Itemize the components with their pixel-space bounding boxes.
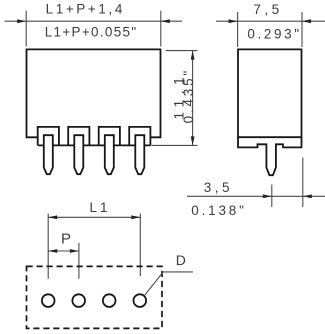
extension line hole 1 (footprint) — [47, 214, 49, 279]
extension line bottom of 11,1 dimension — [152, 144, 198, 146]
dimension line 3,5 — [187, 195, 325, 197]
svg-text:L1: L1 — [89, 200, 110, 215]
hole 2 — [72, 294, 85, 307]
arrowheads of L1 dimension — [48, 215, 140, 219]
arrowheads of 11,1 dimension — [191, 51, 195, 146]
dimension line 7,5 (side view width) — [216, 20, 325, 22]
pin collar 1 — [38, 127, 59, 145]
svg-text:0.138": 0.138" — [191, 203, 246, 218]
dimension line L1 (footprint) — [48, 216, 140, 218]
svg-text:L1+P+1,4: L1+P+1,4 — [46, 1, 125, 16]
leader line for hole diameter D — [144, 272, 193, 296]
extension line left (side view top) — [237, 12, 239, 47]
arrowheads of 3,5 dimension — [263, 194, 312, 198]
dimension line P — [48, 250, 79, 252]
connector body front view — [27, 49, 161, 137]
svg-text:0.293": 0.293" — [247, 26, 301, 41]
solder pin 1 (front view) — [44, 135, 53, 174]
PCB outline (dashed footprint box) — [27, 266, 163, 328]
svg-text:P: P — [61, 230, 71, 247]
arrowheads of 7,5 dimension — [229, 19, 311, 23]
hole 4 — [134, 294, 147, 307]
svg-text:0.435": 0.435" — [181, 68, 196, 123]
solder pin 4 (front view) — [135, 135, 144, 174]
flange line (side view) — [238, 136, 302, 138]
dimension line 11,1 (vertical) — [192, 51, 194, 146]
pin collar 2 — [68, 127, 89, 145]
svg-text:D: D — [176, 252, 186, 268]
extension line right (front view) — [160, 11, 162, 47]
extension line left (front view) — [25, 11, 27, 47]
dimension line L1+P+1,4 (front view overall width) — [5, 20, 183, 22]
svg-text:L1+P+0.055": L1+P+0.055" — [45, 24, 138, 39]
extension line hole 2 (footprint) — [78, 243, 80, 279]
extension line at pin centre (3,5 dimension) — [271, 185, 273, 208]
svg-text:7,5: 7,5 — [253, 2, 282, 17]
svg-text:3,5: 3,5 — [204, 180, 233, 195]
hole 3 — [103, 294, 116, 307]
connector body side view — [238, 49, 302, 175]
solder pin 2 (front view) — [74, 135, 83, 174]
arrowheads of L1+P+1,4 dimension — [17, 19, 170, 23]
seating plane line under collars (front view) — [38, 144, 151, 146]
pin collar 3 — [99, 127, 120, 145]
extension line hole 4 (footprint) — [139, 214, 141, 276]
extension line at body edge (3,5 dimension) — [302, 158, 304, 208]
extension line top of 11,1 dimension — [166, 50, 198, 52]
arrowheads of P dimension — [48, 249, 79, 253]
pin collar 4 — [129, 127, 150, 145]
solder pin 3 (front view) — [105, 135, 114, 174]
hole 1 — [42, 294, 55, 307]
extension line right (side view top) — [301, 12, 303, 47]
